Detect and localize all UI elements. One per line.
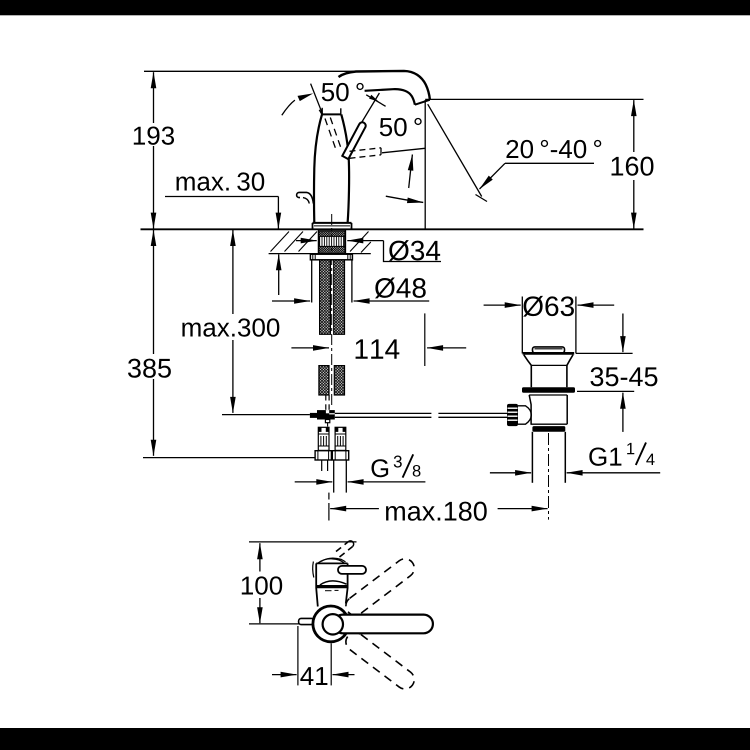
385 dimension line <box>153 230 155 354</box>
left connection nut <box>315 451 331 460</box>
right check valve <box>335 427 346 450</box>
dim text Ø34 <box>389 240 440 261</box>
knurled knob <box>507 404 518 426</box>
100 dimension line <box>259 543 261 571</box>
lower body <box>529 394 567 396</box>
35-45 extension lines <box>576 352 633 354</box>
upper gasket (black band) <box>522 387 575 393</box>
rod knob (front) <box>299 618 314 624</box>
dim text max. 30 <box>176 172 264 190</box>
thin line from lever to spout tip vertical <box>382 148 425 153</box>
pivot ring outer <box>313 606 349 642</box>
spout outer curve <box>339 71 430 100</box>
neck right stub <box>340 108 342 114</box>
rod clamp block <box>317 410 335 419</box>
41 dimension arrows <box>272 674 297 676</box>
bottom reference line of 385 <box>143 457 315 459</box>
spout bar (top view) <box>334 615 433 634</box>
right connection nut <box>332 451 348 460</box>
escutcheon base <box>313 222 352 224</box>
35-45 dimension arrows <box>622 314 624 353</box>
hole interior bands <box>319 231 345 254</box>
max180 extension line (faucet centerline) <box>328 493 330 500</box>
dim text G1 1/4 <box>589 443 654 466</box>
spout swivel diagonal <box>428 104 482 196</box>
pivot ring inner <box>323 614 343 634</box>
mounting washer <box>310 254 352 260</box>
114 extension line <box>424 313 426 366</box>
dashed swivel position lower <box>342 629 418 693</box>
seam ellipse <box>320 581 347 585</box>
50 deg leader with arrow (right, crossing lever axis) <box>366 95 385 107</box>
114 dimension line <box>272 241 466 366</box>
clamp lower tab <box>325 420 329 423</box>
lever up position <box>342 122 365 159</box>
dim text 20-40 deg <box>506 140 601 158</box>
left tube stub <box>321 460 323 471</box>
neck left stub <box>321 108 323 115</box>
seam band <box>316 585 348 588</box>
spout inner curve <box>365 89 415 105</box>
G3/8 dimension arrows <box>295 481 333 483</box>
drain centerline <box>548 433 550 520</box>
max.30 underline <box>165 196 278 198</box>
max.300 dimension line <box>232 230 234 314</box>
body right edge <box>341 114 349 223</box>
deck underside line <box>269 253 371 255</box>
bottom letterbox bar <box>0 728 750 750</box>
20-40 leader line <box>505 162 594 164</box>
tailpipe <box>531 432 533 483</box>
max.30 lower arrow below deck <box>278 254 280 295</box>
cartridge dashed lines <box>325 119 336 151</box>
flange <box>523 352 575 355</box>
dashed swivel position upper <box>342 555 418 619</box>
swivel diagonal end tick <box>476 195 488 202</box>
dashed lever tip (top) <box>340 547 353 557</box>
100 bottom reference line <box>249 623 299 625</box>
knob connector <box>518 406 531 424</box>
G1 1/4 dimension arrows <box>490 472 531 474</box>
lever (top view) <box>338 566 366 574</box>
dim text Ø48 <box>375 278 426 299</box>
dim text 114 <box>356 339 400 358</box>
Ø34 dimension arrows + leader <box>296 240 317 242</box>
50 deg curved leader arrow (left) <box>282 100 295 115</box>
threaded shank upper strips <box>320 254 331 335</box>
dim text 50 deg (upper left) <box>322 83 364 101</box>
hole edges <box>317 229 319 253</box>
deck top line <box>141 228 644 230</box>
thin line left of rod <box>222 414 310 416</box>
spout tip face <box>415 100 430 105</box>
angle up arrow with arc tail <box>409 155 413 189</box>
plug cap <box>533 347 565 353</box>
max.180 dimension arrows <box>330 508 379 510</box>
pop-up vertical rod <box>326 395 329 410</box>
dim text Ø63 <box>523 296 574 317</box>
rod double lines <box>335 413 507 417</box>
deck hatch ticks <box>271 232 371 253</box>
Ø63 dimension arrows <box>484 304 521 306</box>
lever axis extension line <box>362 93 380 122</box>
top letterbox bar <box>0 0 750 15</box>
left check valve <box>318 427 329 450</box>
dim text 100 <box>242 576 282 594</box>
dim text 385 <box>128 359 171 378</box>
193 top reference line <box>144 70 356 72</box>
lever horizontal dashed position <box>350 148 382 152</box>
dim text 193 <box>134 126 174 144</box>
lever up axis extension (left of 50 deg text) <box>311 84 323 115</box>
dim text 35-45 <box>591 367 658 386</box>
41 extension lines <box>297 626 299 685</box>
seam line <box>531 364 567 366</box>
dim text 160 <box>612 157 654 176</box>
angle lower arc arrow <box>386 196 423 202</box>
spout tip vertical extension line <box>424 100 426 229</box>
body left edge <box>314 114 322 223</box>
upper body sides <box>530 365 532 387</box>
lower black band <box>532 426 565 432</box>
pop-up rod knob (side view) <box>297 192 314 203</box>
neck left chamfer <box>319 110 322 115</box>
flare left <box>524 355 532 366</box>
sketch dashes below seam <box>325 590 332 592</box>
100 top reference line <box>249 541 357 543</box>
neck top line <box>322 113 341 115</box>
max.30 down arrow to deck <box>277 197 279 229</box>
flare right <box>567 355 573 366</box>
dim text max.180 <box>386 502 487 521</box>
160 top reference line <box>425 98 643 100</box>
body sides <box>316 563 318 606</box>
rod left end cap <box>310 413 317 418</box>
right tube (G3/8) <box>333 460 335 493</box>
dim text 41 <box>300 667 327 685</box>
dim text 50 deg (right) <box>380 118 422 136</box>
faucet centerline <box>331 214 333 408</box>
Ø48 extension lines <box>311 260 313 303</box>
body sketch top <box>318 559 344 563</box>
Ø48 dimension arrows <box>272 300 310 302</box>
Ø63 extension lines <box>521 297 523 354</box>
dim text G3/8 <box>371 454 420 477</box>
160 dimension line <box>633 100 635 152</box>
193 dimension line <box>153 72 155 123</box>
dim text max.300 <box>182 318 279 336</box>
threaded shank lower strips <box>319 366 329 395</box>
